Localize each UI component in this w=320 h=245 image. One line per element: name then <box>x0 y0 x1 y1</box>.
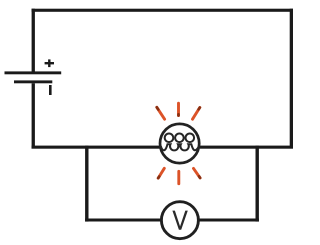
lamp L1 filament loop 2 <box>175 134 184 143</box>
wire voltmeter left <box>85 219 161 222</box>
battery B1 positive plate <box>5 71 62 74</box>
voltmeter V1 circle <box>161 202 198 239</box>
wire voltmeter right <box>199 219 259 222</box>
ray upper-left <box>157 107 165 119</box>
voltmeter V1 label <box>172 211 187 230</box>
node junction left (voltmeter branch tap) <box>85 146 88 222</box>
lamp L1 circle <box>160 124 199 163</box>
lamp L1 filament loop 3 <box>186 134 195 143</box>
wire left upper (top to battery) <box>32 9 35 72</box>
ray upper-right <box>193 108 200 120</box>
ray lower-right <box>194 168 201 178</box>
wire left lower (battery to bottom wire) <box>32 83 35 148</box>
ray lower-left <box>158 168 164 178</box>
wire bottom right (lamp to right corner) <box>200 146 293 149</box>
node junction right (voltmeter branch tap) <box>256 146 259 222</box>
wire top (battery + to lamp loop top) <box>32 9 294 12</box>
lamp L1 filament loop 1 <box>165 134 174 143</box>
lamp L1 rays <box>157 103 200 184</box>
ray dark tips <box>157 107 200 178</box>
lamp L1 filament coil baseline <box>161 144 199 150</box>
wire right (loop right side) <box>290 9 293 149</box>
wire bottom left (corner to lamp) <box>32 146 161 149</box>
battery + label <box>45 59 54 67</box>
ray upper-mid <box>177 103 180 115</box>
battery B1 negative plate <box>14 80 52 83</box>
battery - label <box>49 85 52 95</box>
ray lower-mid <box>177 171 180 183</box>
